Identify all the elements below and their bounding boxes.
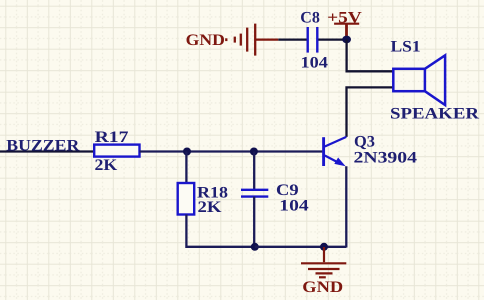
wire C9 bottom to ground rail	[253, 197, 255, 247]
wire C8 to +5V node	[318, 38, 346, 40]
ground GND earth symbol	[301, 247, 346, 277]
svg-text:GND: GND	[302, 279, 343, 296]
svg-text:2K: 2K	[198, 199, 223, 216]
node junction C9 top	[250, 148, 258, 156]
svg-text:GND: GND	[186, 32, 225, 49]
svg-text:Q3: Q3	[354, 133, 375, 150]
transistor Q3	[324, 137, 347, 166]
wire ground rail to emitter corner	[255, 246, 346, 248]
svg-text:+5V: +5V	[327, 9, 362, 26]
wire R18 bottom to ground rail	[186, 215, 254, 247]
wire speaker bottom pin to Q3 collector	[347, 87, 394, 136]
resistor R17	[94, 145, 139, 157]
svg-text:SPEAKER: SPEAKER	[390, 105, 480, 122]
speaker LS1	[393, 55, 445, 105]
wire +5V node to speaker top pin	[347, 39, 394, 71]
resistor R18	[178, 183, 195, 215]
node junction R18 top	[183, 148, 191, 156]
svg-text:LS1: LS1	[391, 39, 421, 56]
transistor Q3 emitter arrow	[334, 158, 345, 167]
capacitor C9	[241, 190, 268, 197]
svg-text:2K: 2K	[95, 157, 118, 174]
power +5V symbol	[334, 24, 359, 37]
svg-text:R17: R17	[95, 129, 129, 146]
svg-text:104: 104	[301, 55, 328, 72]
node junction +5V	[342, 36, 351, 44]
svg-text:C8: C8	[300, 9, 320, 26]
node junction ground rail at GND	[320, 243, 328, 251]
wire junction down to C9	[253, 152, 255, 190]
svg-text:104: 104	[279, 198, 308, 215]
node junction ground rail at C9	[251, 243, 259, 251]
wire junction down to R18	[185, 152, 187, 184]
wire Q3 emitter to ground rail	[345, 166, 347, 247]
wire buzzer net to R17	[0, 150, 94, 152]
capacitor C8	[308, 27, 318, 53]
ground power GND symbol top left	[226, 24, 278, 56]
wire power ground to C8	[278, 38, 306, 40]
wire R17 to Q3 base	[140, 150, 323, 152]
svg-text:BUZZER: BUZZER	[6, 137, 79, 154]
svg-text:2N3904: 2N3904	[354, 150, 418, 167]
